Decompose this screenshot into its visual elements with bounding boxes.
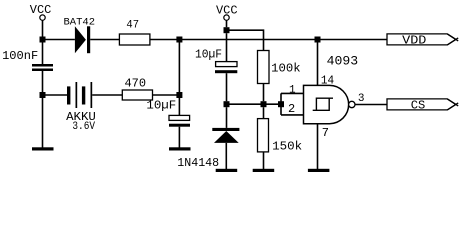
resistor R2 150k <box>258 119 303 154</box>
wire junction H to 150k <box>263 107 265 118</box>
wire gate output <box>355 104 387 106</box>
pin 7 wire <box>317 124 319 169</box>
ground GND1 <box>32 147 54 150</box>
wire pin1 tie <box>281 93 304 115</box>
wire junction E to 100k top <box>230 30 264 50</box>
node junction E <box>224 27 230 33</box>
wire diode to R47 <box>90 39 119 41</box>
diode D1 BAT42 <box>64 17 96 54</box>
node junction B <box>176 37 182 43</box>
svg-text:1N4148: 1N4148 <box>177 156 219 170</box>
wire VCC2 stem <box>226 21 228 28</box>
wire VCC1 stem <box>42 21 44 38</box>
svg-text:14: 14 <box>321 73 334 87</box>
wire R470 to junction D <box>153 94 180 96</box>
node VDD output tag <box>387 33 458 47</box>
node junction F <box>315 37 321 43</box>
ground GND4 <box>253 169 275 172</box>
node CS output tag <box>387 99 458 113</box>
resistor R47 value 47 <box>119 20 149 45</box>
resistor R1 100k <box>258 51 301 84</box>
svg-text:10µF: 10µF <box>146 98 176 112</box>
node VCC (left supply) <box>30 3 52 20</box>
ground GND5 <box>308 169 330 172</box>
ground GND2 <box>169 147 191 150</box>
svg-text:2: 2 <box>288 102 295 116</box>
node junction A <box>40 37 46 43</box>
svg-text:47: 47 <box>126 20 139 32</box>
wire 150k to ground <box>263 152 265 169</box>
node junction I <box>278 101 284 107</box>
op-amp U1 4093 NAND gate <box>304 54 359 124</box>
svg-text:CS: CS <box>411 99 426 113</box>
node junction D <box>176 92 182 98</box>
wire junction B to junction D <box>178 43 180 93</box>
capacitor C3 10uF polarized <box>195 48 237 101</box>
svg-text:3.6V: 3.6V <box>72 121 95 133</box>
wire junction E down to C3 <box>226 33 228 61</box>
svg-text:4093: 4093 <box>327 54 359 69</box>
diode D2 1N4148 <box>177 107 239 170</box>
wire 100k to junction H <box>263 84 265 102</box>
node junction H <box>261 101 267 107</box>
wire main VDD rail <box>150 39 387 41</box>
svg-text:470: 470 <box>125 77 147 91</box>
svg-text:1: 1 <box>289 85 296 97</box>
capacitor C1 100nF <box>2 43 53 93</box>
svg-text:10µF: 10µF <box>195 48 222 62</box>
svg-text:100nF: 100nF <box>2 49 38 63</box>
svg-text:150k: 150k <box>272 139 302 153</box>
resistor R470 value 470 <box>122 77 152 100</box>
node junction G <box>224 101 230 107</box>
wire rail to diode <box>43 39 75 41</box>
wire junction C to battery <box>46 94 68 96</box>
battery B1 AKKU 3.6V <box>66 82 96 133</box>
capacitor C2 10uF polarized <box>146 98 190 148</box>
pin 14 wire <box>317 43 319 86</box>
svg-text:VDD: VDD <box>402 33 426 47</box>
ground GND3 <box>216 169 238 172</box>
wire battery to R470 <box>92 94 122 96</box>
svg-text:100k: 100k <box>271 62 300 76</box>
svg-text:7: 7 <box>322 126 329 140</box>
svg-text:3: 3 <box>358 93 365 105</box>
wire to ground left <box>42 98 44 148</box>
svg-text:BAT42: BAT42 <box>64 17 96 29</box>
node VCC (second supply) <box>216 4 238 21</box>
node junction C <box>40 92 46 98</box>
wire input rail y104 <box>230 103 282 105</box>
